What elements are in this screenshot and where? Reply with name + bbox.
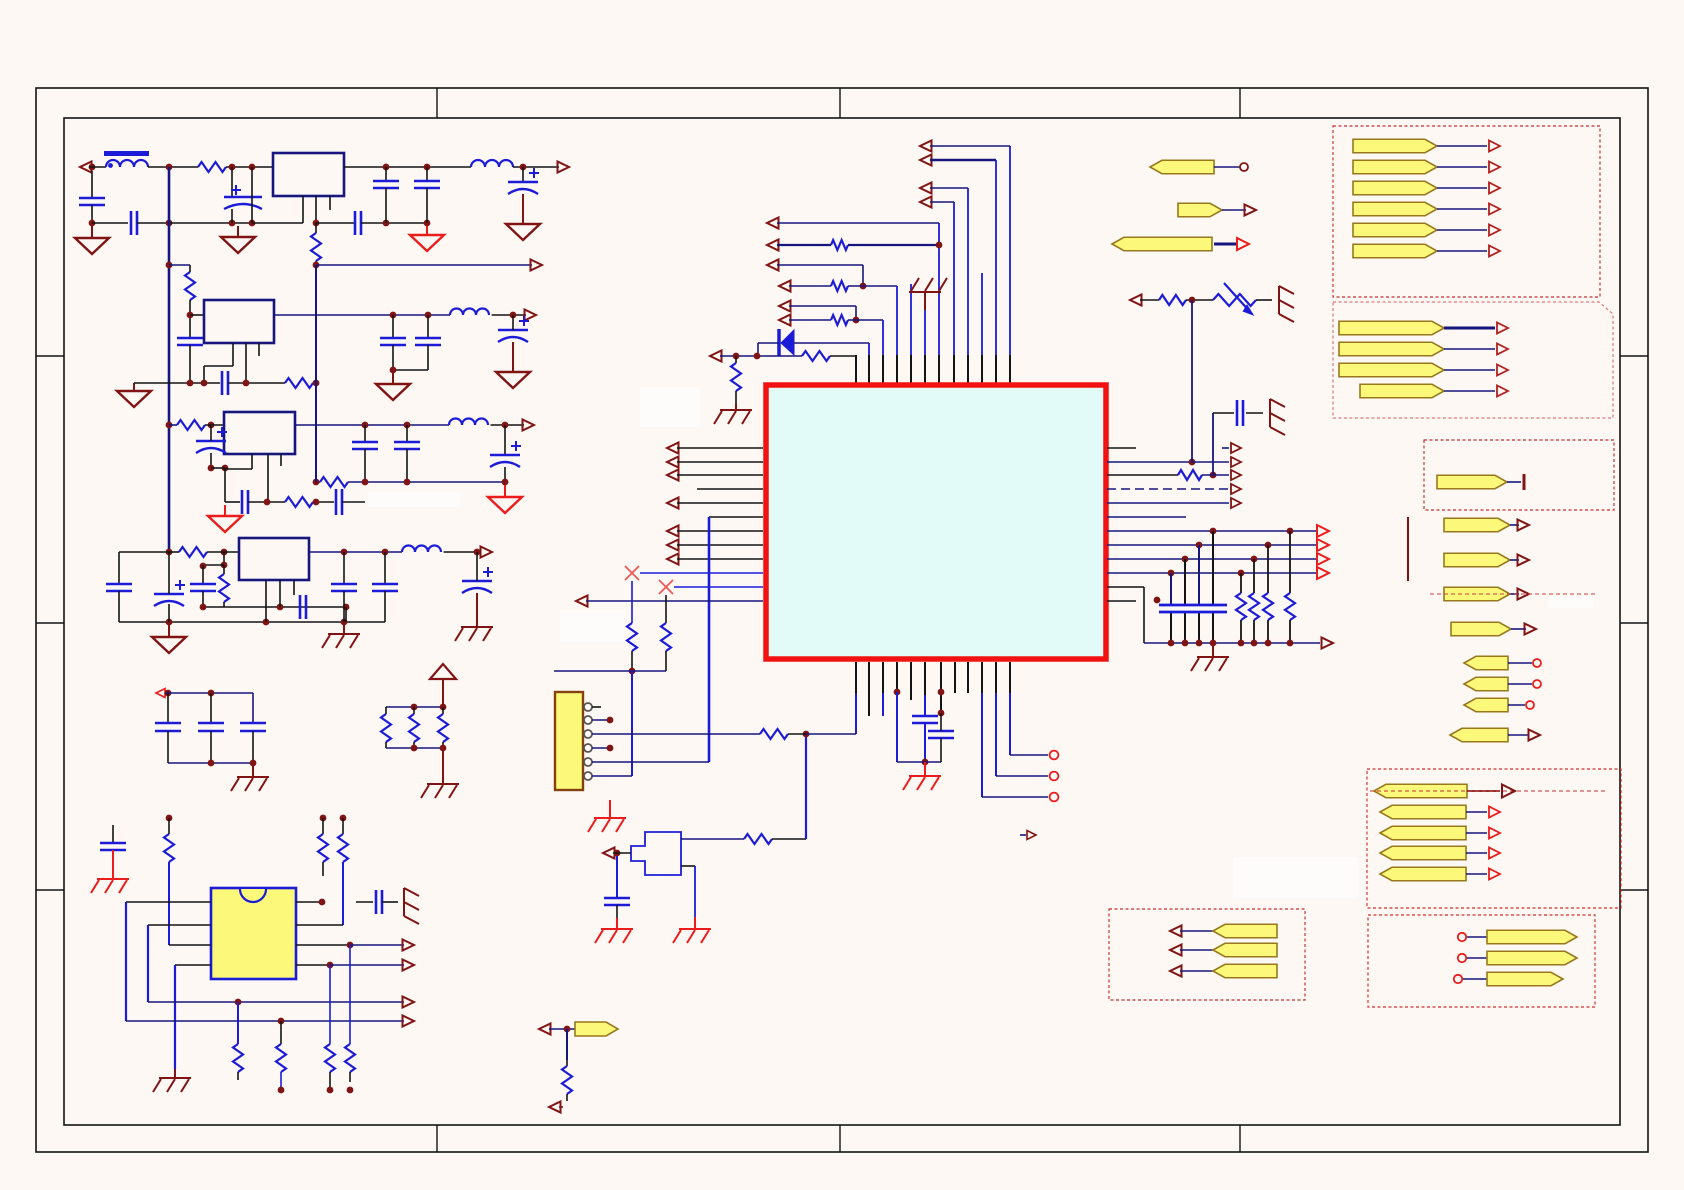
wire bp982c	[982, 796, 1048, 798]
capacitor C27	[198, 722, 224, 725]
node N8	[89, 220, 96, 227]
wire rail2 out	[274, 314, 450, 316]
node N25	[243, 380, 250, 387]
node N86	[1238, 570, 1245, 577]
wire g1w2	[1437, 166, 1487, 168]
wire tb4	[930, 201, 954, 203]
port arrow P19	[779, 281, 791, 292]
wire w C13 stub	[210, 425, 212, 441]
port arrow P7	[156, 689, 165, 698]
port arrow G2P3	[1497, 365, 1508, 376]
node N4	[249, 164, 256, 171]
node N94	[803, 731, 810, 738]
pin circle TPF10	[1526, 701, 1534, 709]
inductor L5	[402, 546, 441, 553]
wire w gnd25 stem	[694, 917, 696, 929]
node N67	[278, 1018, 285, 1025]
wire lp531	[677, 530, 763, 532]
resistor R21	[831, 281, 848, 291]
wire w gnd19 stem	[735, 404, 737, 410]
wire w C29 stub2	[112, 850, 114, 869]
wire w C25 stub2	[476, 593, 478, 627]
node N58	[411, 745, 418, 752]
net flag F10	[1464, 698, 1508, 712]
node N53	[208, 690, 215, 697]
wire rail2 fb2	[228, 382, 285, 384]
wire ctrio top	[165, 692, 253, 694]
port arrow G1P2	[1489, 162, 1500, 173]
net flag G1F2	[1353, 160, 1437, 174]
wire g4w4	[1466, 852, 1487, 854]
wire d1 v	[868, 343, 870, 355]
wire bank bottom	[1144, 642, 1320, 644]
polarized capacitor C16	[490, 454, 520, 457]
wire lp517	[709, 516, 763, 518]
port arrow PF2	[1245, 205, 1257, 216]
port arrow PF6	[1518, 589, 1530, 600]
wire q1 gv	[616, 856, 618, 898]
wire U6 out1	[350, 944, 404, 946]
capacitor C9	[380, 337, 406, 340]
port arrow PR531	[1317, 525, 1329, 537]
wire g1w1	[1437, 145, 1487, 147]
ground GND26	[594, 817, 626, 819]
wire j1 p4	[592, 747, 610, 749]
wire rp489 (dashed)	[1107, 488, 1229, 490]
wire q1 dv	[805, 734, 807, 839]
wire w gnd26 stem	[609, 800, 611, 818]
wire g6w2	[1467, 957, 1487, 959]
wire rail4 in	[207, 551, 239, 553]
wire R14 w2	[322, 862, 324, 876]
wire rail4 bw	[119, 621, 385, 623]
wire w C35 stub2	[1246, 412, 1263, 414]
wire w gnd24 stem	[616, 918, 618, 929]
wire rail3 out2	[491, 424, 524, 426]
port arrow G1P3	[1489, 183, 1500, 194]
wire tb11b	[830, 355, 856, 357]
wire w C7 stub	[522, 167, 524, 182]
node NB1241	[1238, 640, 1245, 647]
group box GB2	[1333, 302, 1613, 418]
port arrow P26	[1020, 834, 1026, 836]
wire w C9 stub	[392, 315, 394, 338]
polarized capacitor C13	[196, 440, 226, 443]
wire rtrio b2	[413, 742, 415, 748]
wire net671	[554, 670, 666, 672]
wire w C30 stub2	[382, 901, 398, 903]
wire q1 gv2	[616, 905, 618, 924]
net flag G4F3	[1380, 826, 1466, 840]
bus stub line	[1407, 517, 1409, 581]
regulator U3	[204, 300, 274, 343]
port arrow P17	[767, 240, 779, 251]
node N27	[208, 422, 215, 429]
ground GND11	[328, 633, 360, 635]
wire rp475	[1107, 474, 1178, 476]
node NB1290	[1287, 640, 1294, 647]
pin circle J1 pin6	[584, 772, 592, 780]
wire tb3v	[967, 188, 969, 355]
port arrow P1 input	[80, 162, 92, 173]
net flag G2F4	[1360, 384, 1444, 398]
wire g1w4	[1437, 208, 1487, 210]
port arrow G2P1	[1497, 323, 1508, 334]
node N19	[390, 312, 397, 319]
node N39	[166, 549, 173, 556]
port arrow PL531	[667, 526, 679, 537]
wire rail3 tap	[169, 424, 177, 426]
resistor R16	[233, 1044, 243, 1072]
resistor R26	[661, 623, 671, 651]
potentiometer RV1	[1213, 294, 1256, 306]
wire R2 stub2	[315, 261, 317, 265]
resistor R2	[311, 233, 321, 261]
node N52	[165, 690, 172, 697]
wire w C14 stub2	[364, 449, 366, 482]
wire g2w2	[1444, 348, 1495, 350]
port arrow P2 out	[558, 162, 570, 173]
wire R16 w	[237, 1002, 239, 1044]
net flag G1F6	[1353, 244, 1437, 258]
wire tb9v	[855, 306, 857, 320]
net flag G1F5	[1353, 223, 1437, 237]
pin circle J1 pin2	[584, 716, 592, 724]
group box GB5	[1109, 909, 1305, 1000]
resistor R19	[345, 1044, 355, 1072]
net flag G5F3	[1213, 964, 1277, 978]
resistor bank R28-R31	[1240, 573, 1242, 593]
wire g2w3	[1444, 369, 1495, 371]
wire ctrio v1	[167, 693, 169, 723]
net flag F12	[575, 1022, 618, 1036]
port arrow P5	[523, 420, 535, 431]
wire rp573	[1107, 572, 1316, 574]
wire g2w4	[1444, 390, 1495, 392]
wire sense wire	[316, 264, 532, 266]
wire g5w3	[1180, 970, 1213, 972]
wire j1 p6	[592, 775, 632, 777]
wire g5w1	[1180, 930, 1213, 932]
capacitor C36	[912, 715, 938, 718]
wire tb stub2	[910, 284, 912, 355]
port arrow P13	[920, 155, 932, 166]
wire g1w3	[1437, 187, 1487, 189]
node N7	[520, 164, 527, 171]
wire d1 w2	[758, 342, 779, 344]
capacitor C22	[299, 595, 302, 619]
node N37	[264, 499, 271, 506]
wire w C8 stub	[189, 318, 191, 338]
node N15	[313, 262, 320, 269]
resistor R6	[285, 497, 313, 507]
no-connect NC2	[659, 580, 673, 594]
resistor R11	[409, 714, 419, 742]
wire rp587v	[1143, 587, 1145, 643]
capacitor C19	[106, 583, 132, 586]
node N56	[411, 704, 418, 711]
wire w gnd5 stem	[392, 373, 394, 384]
wire rail4 br3	[223, 602, 225, 607]
ground GND24	[601, 928, 633, 930]
wire U2 pin a	[302, 196, 304, 223]
wire nc1 v	[631, 581, 633, 623]
wire nc2 v	[665, 595, 667, 623]
capacitor C24	[372, 583, 398, 586]
node N48	[200, 563, 207, 570]
node NB1254	[1251, 640, 1258, 647]
wire lp462	[677, 461, 763, 463]
node N93	[614, 850, 621, 857]
net flag F9	[1464, 677, 1508, 691]
node N79	[1210, 528, 1217, 535]
wire rtrio top	[386, 706, 443, 708]
port arrow PF11	[1529, 730, 1541, 741]
wire f6 w	[1510, 593, 1519, 595]
wire R24 w	[735, 391, 737, 404]
wire pot w2	[1256, 299, 1272, 301]
wire U4 pin a2	[225, 468, 252, 470]
node N11	[249, 220, 256, 227]
node NB1185	[1182, 640, 1189, 647]
net flag G4F5	[1380, 867, 1466, 881]
wire R9 stub	[223, 565, 225, 574]
resistor R14	[318, 834, 328, 862]
wire rp475b	[1202, 474, 1229, 476]
wire rp587	[1107, 586, 1144, 588]
ground GND18 (inverted)	[909, 291, 941, 293]
net flag G4F1	[1374, 784, 1467, 798]
wire ctrio b2	[210, 731, 212, 763]
node N59	[440, 745, 447, 752]
net flag F4	[1444, 518, 1510, 532]
node N28	[362, 422, 369, 429]
wire g5w2	[1180, 949, 1213, 951]
wire w C24 stub2	[384, 591, 386, 622]
node N74	[733, 353, 740, 360]
wire d1 v2	[757, 343, 759, 356]
wire rail1 d	[344, 166, 471, 168]
wire U6 pin5	[296, 901, 322, 903]
capacitor C35	[1236, 400, 1239, 426]
port arrow P3	[531, 260, 543, 271]
node N20	[425, 312, 432, 319]
wire rail4 left2	[118, 552, 120, 584]
port arrow P24	[1322, 638, 1334, 649]
port arrow PL462	[667, 457, 679, 468]
wire rail3 lw2	[248, 501, 285, 503]
net flag G4F4	[1380, 846, 1466, 860]
wire rail1 gnd wire2	[137, 222, 169, 224]
wire U3 pin a	[232, 343, 234, 366]
node N9	[166, 220, 173, 227]
dashed net line	[1370, 790, 1606, 792]
wire bp941b	[940, 713, 942, 731]
wire U6 pin2 v	[147, 925, 149, 1002]
port arrow G1P5	[1489, 225, 1500, 236]
wire rail4 left3	[118, 591, 120, 622]
port arrow G5P2	[1170, 945, 1182, 956]
wire lp503	[677, 502, 763, 504]
wire d1 w	[794, 342, 869, 344]
regulator U5	[239, 538, 309, 580]
wire g4w5	[1466, 873, 1487, 875]
group box GB4	[1367, 769, 1621, 908]
capacitor C14	[352, 441, 378, 444]
node N63	[319, 899, 326, 906]
wire U4 pin c	[280, 454, 282, 466]
wire lp517v	[708, 517, 711, 762]
node N80	[1287, 528, 1294, 535]
wire f10 w	[1508, 704, 1525, 706]
wire U3 pin a2	[204, 365, 233, 367]
wire w C23 stub2	[343, 591, 345, 622]
wire ctrio b3	[252, 731, 254, 763]
wire g1w6	[1437, 250, 1487, 252]
node N72	[860, 283, 867, 290]
wire bp856a	[855, 662, 857, 693]
wire nc1 v2	[631, 651, 633, 671]
wire R19 w2	[349, 1072, 351, 1082]
wire rp517	[1107, 516, 1186, 518]
port arrow G1P6	[1489, 246, 1500, 257]
wire rp462b	[1192, 461, 1229, 463]
wire f7 w	[1511, 628, 1526, 630]
node N69	[327, 1087, 334, 1094]
polarized capacitor C11	[498, 329, 528, 332]
port arrow P6	[481, 547, 493, 558]
wire q1 s	[681, 865, 695, 867]
ground GND20	[1197, 656, 1229, 658]
net flag G1F3	[1353, 181, 1437, 195]
resistor R17	[276, 1044, 286, 1072]
wire rail1 a	[89, 166, 106, 168]
node N46	[474, 549, 481, 556]
wire R17 w2	[280, 1072, 282, 1090]
node N17	[166, 422, 173, 429]
node N83	[1182, 556, 1189, 563]
capacitor C18	[335, 489, 338, 515]
capacitor C29	[100, 842, 126, 845]
wire tb7v	[862, 265, 864, 286]
dashed highlight line	[1430, 593, 1598, 595]
wire w gnd10 stem	[168, 625, 170, 637]
wire rail1 gnd wire3	[169, 222, 252, 224]
port arrow P10	[403, 997, 415, 1008]
transformer T1	[104, 151, 149, 156]
wire U6 pin8	[296, 964, 330, 966]
wire tb11a	[720, 355, 802, 357]
wire bp1010b	[1009, 693, 1011, 755]
net flag G6F3	[1487, 972, 1563, 986]
node N62	[340, 815, 347, 822]
node N68	[278, 1087, 285, 1094]
node N31	[208, 465, 215, 472]
node N84	[1251, 556, 1258, 563]
port arrow G5P3	[1170, 966, 1182, 977]
net flag F7	[1451, 622, 1511, 636]
polarized capacitor C3	[224, 196, 262, 199]
wire w gnd1 stem	[91, 226, 93, 238]
port arrow PR559	[1317, 553, 1329, 565]
wire w gnd11 stem	[343, 622, 345, 634]
wire w C8 stub2	[189, 345, 191, 383]
port arrow P28	[539, 1024, 551, 1035]
wire rp545	[1107, 544, 1316, 546]
wire rail4 out2	[444, 551, 480, 553]
wire tb10v	[882, 320, 884, 355]
node N3	[229, 164, 236, 171]
port arrow G2P4	[1497, 386, 1508, 397]
wire rail4 out	[309, 551, 402, 553]
wire w gnd14 stem	[442, 748, 444, 784]
wire w C3 stub	[231, 167, 233, 197]
wire rtrio v1	[385, 707, 387, 714]
wire w C3 stub3	[251, 167, 253, 223]
wire U3 pin b	[245, 343, 247, 383]
wire rail1 c	[226, 166, 273, 168]
node N44	[341, 549, 348, 556]
node N49	[200, 604, 207, 611]
wire rail2 tap	[169, 264, 190, 266]
wire w C30 stub	[356, 901, 373, 903]
wire w C14 stub	[364, 425, 366, 442]
wire w gnd20 stem	[1212, 643, 1214, 657]
wire rail4 mw	[203, 606, 346, 608]
node N96	[607, 745, 614, 752]
polarized capacitor C25	[462, 580, 492, 583]
wire gnd18 v	[924, 310, 926, 355]
wire rail3 lw4	[342, 501, 365, 503]
wire rtrio bot	[386, 747, 443, 749]
wire rtrio b3	[442, 742, 444, 748]
wire w C29 stub	[112, 825, 114, 843]
wire g6w3	[1463, 978, 1487, 980]
inductor L2	[471, 160, 513, 167]
node N43	[221, 549, 228, 556]
net flag G1F1	[1353, 139, 1437, 153]
diode D1	[777, 329, 781, 356]
net flag F5	[1444, 553, 1510, 567]
wire U2 pin b	[315, 196, 317, 223]
node N64	[347, 942, 354, 949]
node N97	[564, 1026, 571, 1033]
node N51	[343, 604, 350, 611]
wire bp925a	[924, 662, 926, 695]
port arrow P16	[767, 218, 779, 229]
wire rail4 br1	[223, 552, 225, 565]
node N75	[754, 353, 761, 360]
ground GND2	[221, 237, 255, 253]
wire f4 w	[1510, 524, 1519, 526]
port arrow PF4	[1518, 520, 1530, 531]
wire w C25 stub	[476, 552, 478, 581]
port arrow P22	[710, 351, 722, 362]
node N12	[313, 220, 320, 227]
node N92	[938, 710, 945, 717]
port arrow P27	[603, 848, 615, 859]
polarized capacitor C7	[508, 181, 538, 184]
node N76	[629, 668, 636, 675]
wire ctrio top v	[252, 693, 254, 723]
wire tb4v	[953, 202, 955, 355]
node N47	[221, 562, 228, 569]
wire R16 w2	[237, 1072, 239, 1080]
wire R18 w2	[329, 1072, 331, 1090]
pin circle G6TP2	[1458, 954, 1466, 962]
wire w gnd13 stem	[252, 763, 254, 777]
wire R13 w	[168, 818, 170, 834]
